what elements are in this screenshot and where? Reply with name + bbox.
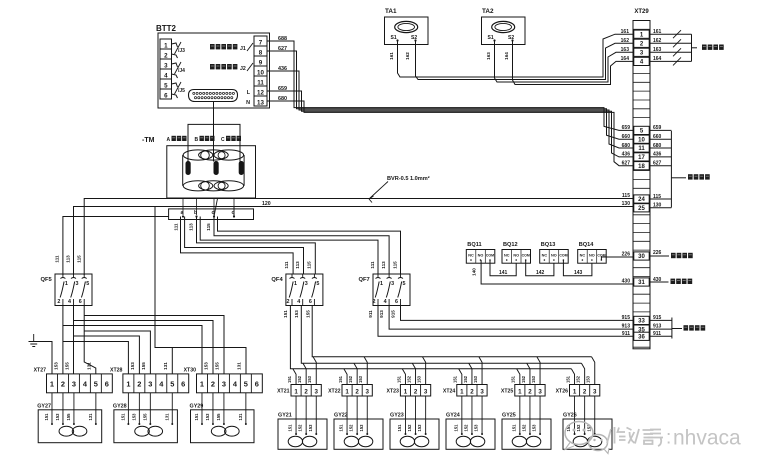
svg-text:6: 6 <box>181 380 185 389</box>
svg-text:2: 2 <box>470 388 474 395</box>
svg-text:GY28: GY28 <box>113 404 127 410</box>
svg-text:659: 659 <box>278 86 287 92</box>
svg-text:140: 140 <box>472 268 477 276</box>
bracket to monitoring cabinet <box>650 129 671 131</box>
svg-text:36: 36 <box>638 335 645 341</box>
wire 913 QF7 to XT29 <box>389 306 633 330</box>
wire 111 to QF5 <box>63 217 169 276</box>
svg-text:6: 6 <box>309 299 312 305</box>
svg-text:3: 3 <box>480 388 484 395</box>
wire branch to XT30 cell1 <box>63 326 202 374</box>
temperature sensor C <box>239 162 243 175</box>
svg-text:2: 2 <box>583 388 587 395</box>
svg-text:153: 153 <box>130 362 135 370</box>
svg-text:3: 3 <box>76 281 79 287</box>
svg-text:115: 115 <box>206 223 211 231</box>
svg-text:155: 155 <box>141 362 146 370</box>
svg-text:6: 6 <box>105 380 109 389</box>
wire branch to XT28 cell2 <box>74 336 140 374</box>
svg-text:151: 151 <box>287 375 292 383</box>
wire PE to XT27 cell1 <box>34 342 52 374</box>
svg-text:436: 436 <box>622 152 631 158</box>
svg-text:18: 18 <box>638 164 645 170</box>
wire R3b pin b to QF4 pole5 <box>197 217 316 275</box>
wire sensor A drop <box>187 124 189 161</box>
svg-text:151: 151 <box>396 375 401 383</box>
svg-text:115: 115 <box>77 255 82 263</box>
svg-text:911: 911 <box>653 331 661 337</box>
svg-text:152: 152 <box>349 424 354 432</box>
wire branch to XT28 cell3 <box>84 331 150 374</box>
svg-text:152: 152 <box>576 424 581 432</box>
svg-text:GY23: GY23 <box>390 413 404 419</box>
svg-text:627: 627 <box>278 46 287 52</box>
svg-text:GY25: GY25 <box>502 413 516 419</box>
svg-text:163: 163 <box>653 47 662 53</box>
cable to CT group (rows 161-164) <box>650 33 692 35</box>
watermark text weixinhao nhvaca <box>607 427 663 446</box>
svg-text:/J3: /J3 <box>178 48 185 54</box>
svg-text:2: 2 <box>61 380 65 389</box>
svg-text:226: 226 <box>653 250 662 256</box>
svg-text:9: 9 <box>259 60 263 67</box>
temperature sensor B <box>214 162 218 175</box>
svg-text:6: 6 <box>255 380 259 389</box>
svg-text:A: A <box>167 137 171 143</box>
svg-text:153: 153 <box>416 375 421 383</box>
svg-text:4: 4 <box>164 73 168 80</box>
svg-text:688: 688 <box>278 36 287 42</box>
svg-text:31: 31 <box>638 280 645 286</box>
svg-text:131: 131 <box>236 362 241 370</box>
svg-text:NC: NC <box>542 254 548 258</box>
svg-text:NC: NC <box>468 254 474 258</box>
svg-text:152: 152 <box>575 375 580 383</box>
svg-text:153: 153 <box>308 424 313 432</box>
svg-text:3: 3 <box>538 388 542 395</box>
svg-text:660: 660 <box>653 134 662 140</box>
svg-text:113: 113 <box>381 261 386 269</box>
svg-text:XT22: XT22 <box>328 389 341 395</box>
svg-text:3: 3 <box>148 380 152 389</box>
svg-text:GY21: GY21 <box>278 413 292 419</box>
svg-text:NO: NO <box>478 254 484 258</box>
svg-text:153: 153 <box>131 413 136 421</box>
svg-text:BQ14: BQ14 <box>579 242 595 248</box>
wire neutral to XT28 cell5 <box>171 348 173 374</box>
svg-text:151: 151 <box>511 375 516 383</box>
wire 140 BQ11 NO to 430 run <box>481 260 633 284</box>
svg-text:10: 10 <box>257 70 264 77</box>
svg-text:436: 436 <box>653 152 662 158</box>
svg-text:162: 162 <box>405 52 410 60</box>
svg-text:913: 913 <box>653 324 662 330</box>
svg-text:151: 151 <box>453 424 458 432</box>
svg-text:155: 155 <box>216 413 221 421</box>
svg-text:151: 151 <box>338 375 343 383</box>
wire phase2 bus to cells 2 <box>301 306 581 364</box>
svg-text:/J5: /J5 <box>178 88 185 94</box>
transformer TM windings <box>182 155 184 186</box>
svg-text:151: 151 <box>194 413 199 421</box>
svg-text:659: 659 <box>622 125 631 131</box>
svg-text:1: 1 <box>460 388 464 395</box>
svg-text:8: 8 <box>259 50 263 57</box>
svg-text:XT30: XT30 <box>184 368 197 374</box>
svg-text:2: 2 <box>373 299 376 305</box>
svg-text:QF5: QF5 <box>41 277 53 283</box>
wire pin c to 115 run <box>214 199 218 217</box>
wire 915 QF7 to XT29 <box>401 306 634 321</box>
wire pin o to 130 run <box>233 207 235 217</box>
transformer TM box <box>167 146 256 198</box>
svg-text:5: 5 <box>244 380 248 389</box>
ground symbol <box>33 334 35 342</box>
terminal strip BTT2 right (7-13) <box>254 36 267 106</box>
svg-text:QF4: QF4 <box>271 277 283 283</box>
svg-text:226: 226 <box>622 252 631 258</box>
svg-text:COM: COM <box>522 254 530 258</box>
svg-text:153: 153 <box>586 375 591 383</box>
svg-text:120: 120 <box>262 201 271 207</box>
svg-text:151: 151 <box>288 424 293 432</box>
wire 430 external <box>650 281 669 283</box>
svg-text:25: 25 <box>638 206 645 212</box>
svg-text:COM: COM <box>559 254 567 258</box>
svg-text:3: 3 <box>593 388 597 395</box>
svg-text:11: 11 <box>638 146 645 152</box>
wire R4 pin a to QF4 pole3 <box>185 217 304 275</box>
svg-text:164: 164 <box>504 52 509 60</box>
svg-text:113: 113 <box>295 261 300 269</box>
svg-text:nhvaca: nhvaca <box>673 427 741 450</box>
svg-text:153: 153 <box>203 362 208 370</box>
svg-text:S1: S1 <box>391 35 397 41</box>
svg-text:162: 162 <box>653 38 662 44</box>
svg-text:680: 680 <box>653 143 662 149</box>
svg-text:24: 24 <box>638 197 645 203</box>
svg-text:153: 153 <box>294 310 299 318</box>
svg-text:163: 163 <box>486 52 491 60</box>
svg-text:911: 911 <box>622 331 630 337</box>
svg-text:111: 111 <box>55 255 60 263</box>
svg-text:XT25: XT25 <box>501 389 514 395</box>
svg-text:115: 115 <box>393 261 398 269</box>
svg-text:131: 131 <box>238 413 243 421</box>
svg-text:1: 1 <box>126 380 130 389</box>
svg-text:NO: NO <box>513 254 519 258</box>
svg-text:915: 915 <box>622 315 631 321</box>
svg-text:XT24: XT24 <box>443 389 456 395</box>
svg-text:152: 152 <box>463 424 468 432</box>
svg-text:3: 3 <box>391 281 394 287</box>
svg-text:130: 130 <box>622 201 631 207</box>
svg-text:1: 1 <box>200 380 204 389</box>
svg-text:2: 2 <box>164 53 168 60</box>
svg-text:115: 115 <box>622 193 630 199</box>
svg-text:113: 113 <box>189 223 194 231</box>
svg-text:5: 5 <box>316 281 319 287</box>
svg-text:COM: COM <box>486 254 494 258</box>
svg-text:XT23: XT23 <box>386 389 399 395</box>
svg-text:TA1: TA1 <box>385 8 397 15</box>
svg-text:C: C <box>221 137 225 143</box>
svg-text:XT28: XT28 <box>110 368 123 374</box>
svg-text:TA2: TA2 <box>482 8 494 15</box>
wire DB cable down to TM <box>213 102 215 153</box>
svg-text:1: 1 <box>380 281 383 287</box>
wire 115 long run <box>84 199 633 276</box>
svg-text:153: 153 <box>532 424 537 432</box>
wire 911 QF7 to XT29 <box>378 306 633 337</box>
wire 143 link BQ13-BQ14 <box>563 260 592 276</box>
svg-text:111: 111 <box>284 261 289 269</box>
bracket to power cabinet <box>650 319 672 321</box>
svg-text:2: 2 <box>414 388 418 395</box>
svg-text:155: 155 <box>306 310 311 318</box>
svg-text:155: 155 <box>64 362 69 370</box>
svg-text:1: 1 <box>404 388 408 395</box>
svg-text:131: 131 <box>163 362 168 370</box>
wire neutral drop from 130 run <box>155 207 246 374</box>
wire R1 pin c to QF7 pole5 <box>218 217 401 275</box>
svg-text:152: 152 <box>521 375 526 383</box>
svg-text:152: 152 <box>406 375 411 383</box>
svg-text:627: 627 <box>653 161 662 167</box>
svg-text:436: 436 <box>278 66 287 72</box>
svg-text:1: 1 <box>164 43 168 50</box>
wire 688 <box>267 41 633 130</box>
svg-text:NC: NC <box>580 254 586 258</box>
svg-text:141: 141 <box>499 270 508 276</box>
svg-text:2: 2 <box>304 388 308 395</box>
wire 659 <box>267 91 633 157</box>
wire R5 pin a to QF4 pole1 <box>181 217 294 275</box>
wire R2 pin c to QF7 pole3 <box>214 217 389 275</box>
svg-text:NO: NO <box>551 254 557 258</box>
svg-text:430: 430 <box>622 279 631 285</box>
svg-text:2: 2 <box>57 299 60 305</box>
svg-text:915: 915 <box>653 315 662 321</box>
svg-text:/J4: /J4 <box>178 68 185 74</box>
svg-text:2: 2 <box>287 299 290 305</box>
temperature sensor A <box>186 162 190 175</box>
svg-text:17: 17 <box>638 155 645 161</box>
wire R3a pin b to QF7 pole1 <box>200 217 378 275</box>
wire 130 long run <box>74 207 634 276</box>
svg-text:2: 2 <box>137 380 141 389</box>
svg-text:S1: S1 <box>488 35 494 41</box>
svg-text:152: 152 <box>463 375 468 383</box>
svg-text:XT29: XT29 <box>634 9 649 15</box>
svg-text:627: 627 <box>622 161 631 167</box>
wire QF5 pole2 to XT27 cell2 <box>62 306 64 374</box>
svg-text:153: 153 <box>473 375 478 383</box>
svg-text:2: 2 <box>355 388 359 395</box>
wire 164 <box>513 41 634 85</box>
svg-text:164: 164 <box>621 56 630 62</box>
svg-text:151: 151 <box>397 424 402 432</box>
wire 680 <box>267 101 633 166</box>
svg-text:10: 10 <box>638 137 645 143</box>
wire phase3 bus to cells 3 <box>312 306 591 357</box>
svg-text:a: a <box>181 210 184 216</box>
svg-text:130: 130 <box>653 203 662 209</box>
wire sensor C drop <box>239 124 241 161</box>
svg-text:7: 7 <box>259 40 263 47</box>
wire QF5 pole6 to XT27 cell5 <box>84 306 96 374</box>
svg-text:11: 11 <box>257 80 264 87</box>
svg-text:151: 151 <box>453 375 458 383</box>
svg-text:GY22: GY22 <box>334 413 348 419</box>
jumper /J4 <box>172 63 178 67</box>
svg-text:1: 1 <box>573 388 577 395</box>
svg-text:5: 5 <box>170 380 174 389</box>
svg-text:2: 2 <box>211 380 215 389</box>
wire branch to XT30 cell3 <box>84 316 224 374</box>
wire sensor B drop <box>213 102 215 162</box>
svg-text:GY24: GY24 <box>446 413 460 419</box>
wire 436 <box>267 71 633 148</box>
svg-text:3: 3 <box>315 388 319 395</box>
sensor cable bracket <box>188 124 240 152</box>
svg-text:33: 33 <box>638 319 645 325</box>
svg-text:142: 142 <box>536 270 545 276</box>
svg-text:2: 2 <box>528 388 532 395</box>
svg-text:680: 680 <box>278 96 287 102</box>
svg-text:3: 3 <box>72 380 76 389</box>
svg-text:161: 161 <box>621 29 630 35</box>
svg-text:153: 153 <box>531 375 536 383</box>
svg-text:BQ12: BQ12 <box>503 242 518 248</box>
svg-text:151: 151 <box>511 424 516 432</box>
svg-text:131: 131 <box>164 413 169 421</box>
svg-text:B: B <box>195 137 199 143</box>
svg-text:1: 1 <box>518 388 522 395</box>
svg-text:5: 5 <box>94 380 98 389</box>
svg-text:152: 152 <box>407 424 412 432</box>
label transformer measuring J1 <box>210 44 237 49</box>
svg-text:115: 115 <box>307 261 312 269</box>
svg-text:155: 155 <box>66 413 71 421</box>
wire 162 <box>416 41 634 80</box>
svg-text:151: 151 <box>283 310 288 318</box>
svg-text:152: 152 <box>298 424 303 432</box>
svg-text:131: 131 <box>86 362 91 370</box>
connector DB25 <box>189 90 238 102</box>
svg-text:6: 6 <box>164 93 168 100</box>
svg-text:NC: NC <box>504 254 510 258</box>
svg-text:131: 131 <box>88 413 93 421</box>
svg-text:GY29: GY29 <box>190 404 204 410</box>
svg-text:5: 5 <box>86 281 89 287</box>
svg-text:913: 913 <box>622 324 631 330</box>
svg-text:3: 3 <box>164 63 168 70</box>
svg-text:6: 6 <box>79 299 82 305</box>
svg-text:152: 152 <box>521 424 526 432</box>
svg-text:XT27: XT27 <box>34 368 47 374</box>
svg-text:152: 152 <box>348 375 353 383</box>
wire branch to XT30 cell2 <box>74 321 214 374</box>
wire 627 <box>267 51 633 139</box>
wire 142 link BQ12-BQ13 <box>526 260 554 276</box>
svg-text:151: 151 <box>120 413 125 421</box>
svg-text:J2: J2 <box>240 66 246 72</box>
svg-text:143: 143 <box>574 270 583 276</box>
svg-text:1: 1 <box>50 380 54 389</box>
svg-text:13: 13 <box>257 100 264 107</box>
terminal box TM pins <box>169 209 254 220</box>
watermark wechat logo <box>565 422 609 454</box>
svg-text:913: 913 <box>379 310 384 318</box>
svg-text:NO: NO <box>589 254 595 258</box>
svg-text:4: 4 <box>384 299 387 305</box>
svg-text:155: 155 <box>214 362 219 370</box>
svg-text:J1: J1 <box>240 46 246 52</box>
svg-text:153: 153 <box>474 424 479 432</box>
svg-text:163: 163 <box>621 47 630 53</box>
svg-text:152: 152 <box>297 375 302 383</box>
svg-text:911: 911 <box>368 310 373 318</box>
svg-text:161: 161 <box>653 29 662 35</box>
svg-text:153: 153 <box>417 424 422 432</box>
svg-text:153: 153 <box>205 413 210 421</box>
svg-text:660: 660 <box>622 134 631 140</box>
svg-text:161: 161 <box>389 52 394 60</box>
svg-text:4: 4 <box>297 299 300 305</box>
svg-text:5: 5 <box>403 281 406 287</box>
svg-text:BVR-0.5 1.0mm²: BVR-0.5 1.0mm² <box>387 175 430 182</box>
svg-text:153: 153 <box>358 375 363 383</box>
svg-text:BQ13: BQ13 <box>541 242 556 248</box>
svg-text:162: 162 <box>621 38 630 44</box>
wire 161 <box>398 34 634 77</box>
svg-text:153: 153 <box>53 362 58 370</box>
svg-text:XT21: XT21 <box>277 389 290 395</box>
svg-text:BTT2: BTT2 <box>156 24 177 33</box>
svg-text:QF7: QF7 <box>359 277 370 283</box>
jumper /J5 <box>172 83 178 87</box>
wire 226 BQ14 to XT29 <box>601 257 633 260</box>
terminal strip BTT2 left (1-6) <box>160 39 172 99</box>
wire 226 external <box>650 255 669 257</box>
svg-text:153: 153 <box>55 413 60 421</box>
label transformer protection J2 <box>210 64 237 69</box>
svg-text::: : <box>666 428 671 449</box>
svg-text:153: 153 <box>359 424 364 432</box>
svg-text:151: 151 <box>565 375 570 383</box>
wire branch to XT28 cell1 <box>63 342 128 374</box>
svg-text:3: 3 <box>305 281 308 287</box>
svg-text:30: 30 <box>638 254 645 260</box>
svg-text:115: 115 <box>653 194 661 200</box>
svg-text:111: 111 <box>370 261 375 269</box>
svg-text:113: 113 <box>66 255 71 263</box>
wire 163 <box>495 41 634 83</box>
svg-text:164: 164 <box>653 56 662 62</box>
svg-text:4: 4 <box>68 299 71 305</box>
jumper /J3 <box>172 43 178 47</box>
svg-text:155: 155 <box>142 413 147 421</box>
svg-text:3: 3 <box>366 388 370 395</box>
svg-text:5: 5 <box>164 83 168 90</box>
svg-text:153: 153 <box>307 375 312 383</box>
svg-text:6: 6 <box>395 299 398 305</box>
svg-text:3: 3 <box>222 380 226 389</box>
svg-text:BQ11: BQ11 <box>467 242 481 248</box>
svg-text:b: b <box>194 210 197 216</box>
svg-text:-TM: -TM <box>142 137 155 144</box>
